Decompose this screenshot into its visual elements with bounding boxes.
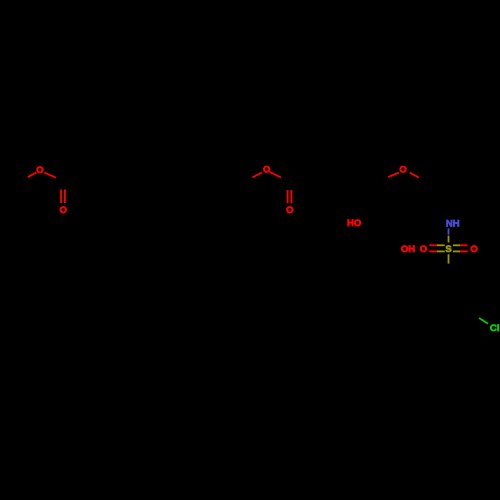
S=O left double bond top line red half: [429, 244, 437, 246]
bond C-Cl (green half): [479, 318, 488, 324]
svg-text:Cl: Cl: [490, 323, 500, 334]
S=O left double bond top line olive half: [437, 244, 445, 246]
double bond C=O4 line 2: [290, 190, 292, 203]
bond O1-C(=O) (red half): [44, 173, 56, 178]
double bond C=O4 line 1: [287, 190, 289, 203]
S=O left double bond bottom line red half: [429, 250, 437, 252]
S=O right double bond bottom line olive half: [453, 250, 460, 252]
S=O right double bond top line red half: [460, 244, 467, 246]
wire: invisible carbon skeleton (black bonds): [19, 170, 479, 323]
svg-text:O: O: [36, 165, 43, 176]
svg-text:O: O: [263, 165, 270, 176]
svg-text:O: O: [420, 244, 427, 255]
bond CH3-O1 (red half): [28, 172, 37, 177]
svg-text:O: O: [286, 205, 293, 216]
S=O right double bond top line olive half: [453, 244, 460, 246]
svg-text:OH: OH: [401, 244, 415, 255]
svg-text:O: O: [60, 205, 67, 216]
S=O right double bond bottom line red half: [460, 250, 467, 252]
double bond C=O2 line 1: [60, 190, 62, 204]
svg-text:O: O: [470, 244, 477, 255]
S=O left double bond bottom line olive half: [437, 250, 445, 252]
svg-text:NH: NH: [446, 218, 460, 229]
svg-text:HO: HO: [347, 218, 361, 229]
bond N-S lower half (sulfur olive): [448, 236, 450, 243]
bond C-O5 left (red half): [388, 173, 399, 177]
double bond C=O2 line 2: [64, 190, 66, 204]
svg-text:S: S: [445, 244, 451, 255]
bond N-S upper half (blue): [448, 229, 450, 235]
bond O5-C right (red half): [410, 173, 419, 178]
bond C-O3 (red half): [252, 172, 262, 177]
bond O3-C(=O) (red half): [270, 172, 281, 178]
bond S-C lower (olive half): [448, 254, 450, 263]
svg-text:O: O: [399, 165, 406, 176]
